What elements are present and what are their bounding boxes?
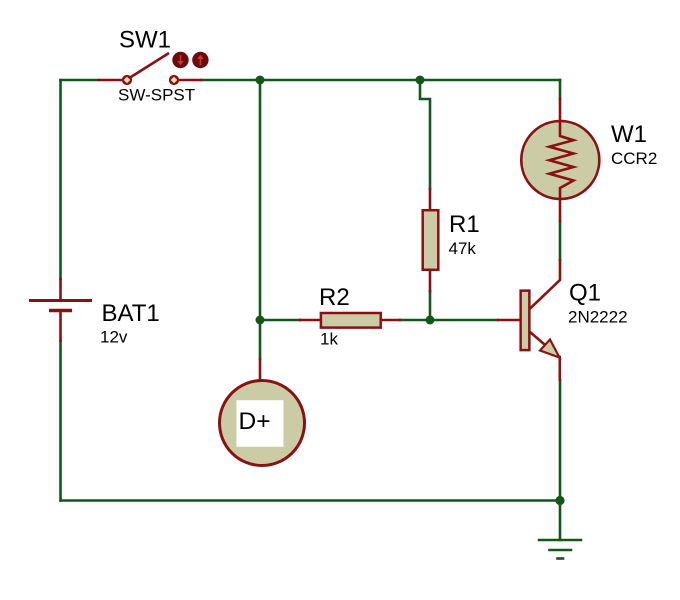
svg-text:CCR2: CCR2 (611, 149, 657, 168)
svg-text:47k: 47k (449, 239, 477, 258)
svg-text:BAT1: BAT1 (102, 300, 160, 327)
svg-text:R2: R2 (319, 284, 350, 311)
svg-text:SW-SPST: SW-SPST (118, 86, 195, 105)
svg-text:1k: 1k (320, 330, 338, 349)
svg-text:Q1: Q1 (569, 280, 601, 307)
svg-text:D+: D+ (239, 408, 271, 435)
svg-text:SW1: SW1 (119, 27, 171, 54)
svg-text:12v: 12v (100, 328, 128, 347)
svg-text:2N2222: 2N2222 (568, 308, 628, 327)
svg-text:W1: W1 (611, 121, 647, 148)
svg-text:R1: R1 (449, 211, 480, 238)
